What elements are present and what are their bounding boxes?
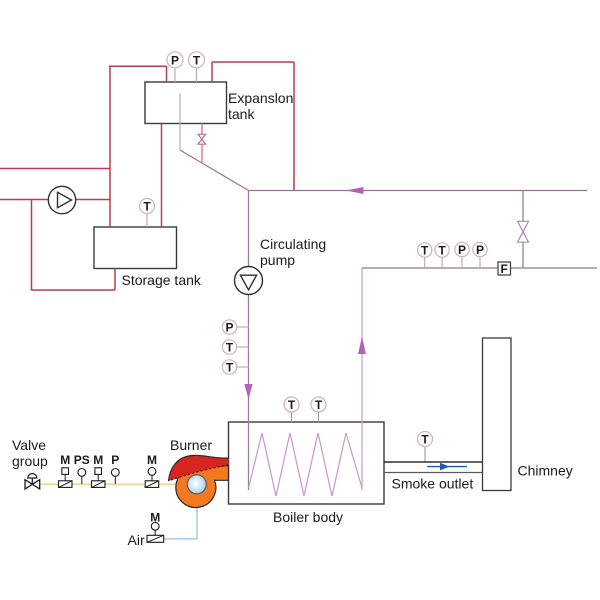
wire pink expansion tank drain lower [201,144,203,163]
svg-text:Smoke outlet: Smoke outlet [392,476,474,492]
svg-text:T: T [438,244,446,258]
wire purple return main horizontal [249,190,588,192]
svg-text:P: P [171,53,179,67]
svg-text:T: T [226,341,234,355]
gauge P pump column [222,320,248,335]
svg-text:P: P [476,243,484,257]
arrow flow down into boiler [244,384,252,400]
wire red return bottom horizontal [31,289,115,291]
wire red top right horizontal [212,61,294,63]
gauge T smoke outlet [418,432,433,463]
sensor PS gas line [74,453,90,484]
svg-text:Storage tank: Storage tank [122,272,202,288]
svg-text:tank: tank [228,106,255,122]
valve burner gas M3 [145,453,159,487]
wire purple bypass vertical [522,191,524,269]
gauge T expansion tank [189,52,205,82]
svg-text:M: M [147,453,157,467]
svg-text:P: P [458,243,466,257]
boiler body rectangle [229,422,385,504]
svg-text:T: T [288,398,296,412]
valve air damper M [147,511,164,543]
wire red drop to return main [293,62,295,191]
valve solenoid M1 [59,453,73,487]
wire blue air line [164,505,197,539]
wire red pump line horizontal [0,199,110,201]
wire red expansion tank to storage tank [161,124,163,228]
wire purple pump column [248,191,250,491]
svg-text:F: F [501,262,508,276]
svg-text:M: M [60,453,70,467]
svg-text:T: T [226,361,234,375]
valve safety under expansion tank [198,134,206,144]
svg-text:T: T [143,200,151,214]
gauge P expansion tank [167,52,183,82]
burner hood dashed seam [169,465,229,481]
pump primary circuit [48,186,75,213]
svg-text:P: P [111,453,119,467]
storage tank body [94,227,177,269]
wire grey inside expansion tank [179,94,181,151]
svg-text:T: T [421,433,429,447]
arrow smoke flow [427,463,467,471]
burner flame hood red [169,455,229,481]
gauge T pump column lower [222,360,248,375]
wire red expansion tank top right riser [211,62,213,82]
svg-text:Valve: Valve [12,437,46,453]
gauge T pump column upper [222,340,248,355]
svg-text:Circulating: Circulating [260,236,326,252]
wire red vertical to storage tank [109,66,111,228]
svg-text:Boiler body: Boiler body [273,509,343,525]
svg-text:pump: pump [260,252,295,268]
svg-text:Chimney: Chimney [518,463,573,479]
burner fan volute orange [176,466,229,508]
valve group shutoff valve [25,474,40,489]
wire diagonal expansion to pump junction [180,150,249,191]
smoke duct bottom line [384,472,483,474]
flow meter F box [498,262,511,276]
wire pink expansion tank drain upper [201,124,203,135]
svg-text:Expanslon: Expanslon [228,90,293,106]
wire yellow gas line [41,483,178,485]
chimney body [483,338,512,491]
svg-text:T: T [315,398,323,412]
gauge P sensor header 1 [455,242,469,268]
wire purple boiler outlet riser [361,268,363,490]
gauge T boiler left [284,397,299,422]
wire red riser into storage tank bottom [114,269,116,291]
svg-text:Burner: Burner [170,437,212,453]
coil heat exchanger zigzag in boiler [249,433,363,496]
wire red return drop left [31,200,33,291]
expansion tank body [145,82,227,124]
gauge T sensor header 1 [418,243,432,268]
smoke duct top line [384,461,483,463]
gauge P sensor header 2 [473,242,487,268]
svg-text:M: M [93,453,103,467]
sensor P gas line [111,453,119,484]
gauge T sensor header 2 [435,243,449,268]
gauge T boiler right [311,397,326,422]
valve solenoid M2 [92,453,106,487]
svg-text:P: P [225,321,233,335]
svg-text:group: group [12,453,48,469]
pump circulating [235,267,263,295]
svg-text:T: T [421,244,429,258]
wire red top horizontal to expansion tank [109,65,166,67]
wire red drop into expansion tank top [166,66,168,82]
burner blower eye sphere [187,475,206,494]
arrow flow left on return main [346,187,364,194]
wire purple sensor header horizontal [362,267,597,269]
arrow flow up from boiler [358,337,366,355]
valve bypass [518,221,529,242]
svg-text:Air: Air [128,532,145,548]
wire red supply top-left horizontal [0,168,110,170]
svg-text:PS: PS [74,453,90,467]
gauge T storage tank [140,199,155,228]
svg-text:T: T [193,53,201,67]
